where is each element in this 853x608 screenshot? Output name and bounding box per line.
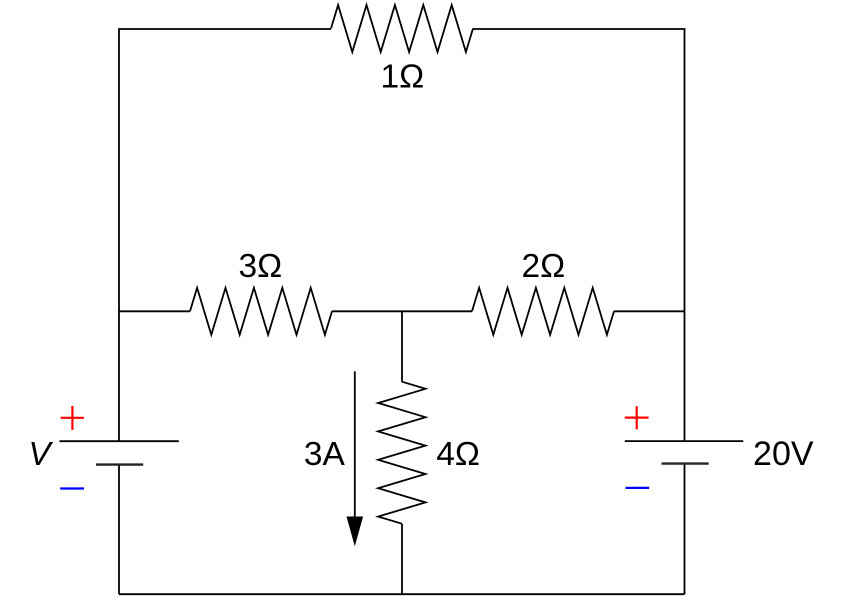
wire middle-center segment <box>332 310 472 312</box>
label 2ohm <box>521 248 565 285</box>
battery V long plate <box>60 440 179 442</box>
wire center branch bottom <box>401 524 403 595</box>
wire bottom segment <box>119 593 685 595</box>
resistor 1ohm zigzag <box>331 5 473 52</box>
current arrow 3A shaft <box>354 371 356 520</box>
svg-text:3Ω: 3Ω <box>238 248 282 285</box>
svg-text:V: V <box>28 435 53 472</box>
plus sign of battery V <box>61 406 84 430</box>
label 3A <box>304 436 346 473</box>
wire center branch top <box>401 311 403 381</box>
label 4ohm <box>436 436 480 473</box>
current arrow 3A head <box>347 517 364 547</box>
svg-text:2Ω: 2Ω <box>521 248 565 285</box>
minus sign of battery 20V <box>626 487 650 489</box>
label 1ohm <box>381 59 425 96</box>
battery 20V long plate <box>625 440 744 442</box>
svg-text:3A: 3A <box>304 436 346 473</box>
label 20V <box>753 435 814 473</box>
wire right bottom segment <box>684 464 686 595</box>
wire middle-right segment <box>614 310 685 312</box>
resistor 4ohm zigzag <box>378 382 425 524</box>
battery 20V short plate <box>662 462 709 464</box>
minus sign of battery V <box>60 487 84 489</box>
battery V short plate <box>96 463 143 465</box>
svg-text:1Ω: 1Ω <box>381 59 425 96</box>
wire left bottom segment <box>118 465 120 595</box>
wire top-left segment <box>119 29 331 441</box>
wire top-right segment <box>473 29 685 441</box>
label V source <box>28 435 53 472</box>
svg-text:20V: 20V <box>753 435 814 473</box>
svg-text:4Ω: 4Ω <box>436 436 480 473</box>
label 3ohm <box>238 248 282 285</box>
wire middle-left segment <box>119 310 190 312</box>
plus sign of battery 20V <box>625 406 649 429</box>
resistor 2ohm zigzag <box>472 288 614 335</box>
resistor 3ohm zigzag <box>190 288 332 335</box>
